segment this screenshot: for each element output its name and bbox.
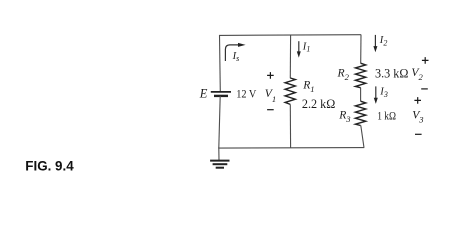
svg-text:2.2 kΩ: 2.2 kΩ (302, 97, 335, 111)
svg-text:V3: V3 (412, 109, 423, 125)
label + (V1 polarity top) (267, 72, 274, 79)
battery E: short plate (-) (214, 95, 228, 97)
branch current arrow I1 (297, 41, 301, 57)
wire middle vertical lower (R1 to bottom wire) (289, 104, 291, 148)
svg-text:I3: I3 (379, 87, 388, 99)
label - (V1 polarity bottom) (267, 109, 274, 111)
ground symbol (210, 161, 229, 168)
wire right vertical lower (R3 to bottom wire) (361, 126, 364, 148)
label - (V2 polarity bottom) (421, 88, 428, 90)
svg-text:V1: V1 (265, 87, 276, 104)
svg-text:R3: R3 (338, 109, 350, 124)
ground stub wire (218, 148, 220, 161)
wire left vertical upper (E + terminal to top wire) (219, 35, 222, 92)
battery E: long plate (+) (211, 91, 231, 93)
label + (V3 polarity top) (414, 97, 421, 104)
svg-text:FIG. 9.4: FIG. 9.4 (25, 158, 74, 173)
resistor R3 zigzag (355, 101, 365, 125)
branch current arrow I3 (374, 86, 378, 104)
label + (V2 polarity top) (422, 57, 429, 64)
resistor R2 zigzag (355, 63, 365, 87)
svg-text:I1: I1 (302, 41, 311, 53)
svg-text:Is: Is (232, 51, 240, 63)
wire right vertical middle (R2 to R3) (360, 88, 362, 102)
branch current arrow I2 (373, 35, 377, 52)
wire left vertical lower (E - terminal to bottom wire) (219, 96, 220, 148)
svg-text:E: E (199, 86, 208, 100)
svg-text:1 kΩ: 1 kΩ (377, 110, 396, 123)
wire top: node a to node b (219, 34, 361, 37)
svg-text:R2: R2 (337, 67, 350, 82)
source current arrow Is (225, 43, 245, 61)
wire middle vertical upper (top wire to R1) (289, 35, 291, 78)
wire bottom: ground rail (218, 147, 364, 150)
label - (V3 polarity bottom) (415, 133, 422, 135)
svg-text:R1: R1 (302, 78, 314, 93)
svg-text:12 V: 12 V (236, 87, 256, 101)
svg-text:3.3 kΩ: 3.3 kΩ (375, 66, 408, 80)
svg-text:V2: V2 (411, 66, 423, 82)
resistor R1 zigzag (285, 78, 295, 104)
wire right vertical upper (top wire to R2) (360, 35, 362, 64)
svg-text:I2: I2 (379, 35, 388, 47)
